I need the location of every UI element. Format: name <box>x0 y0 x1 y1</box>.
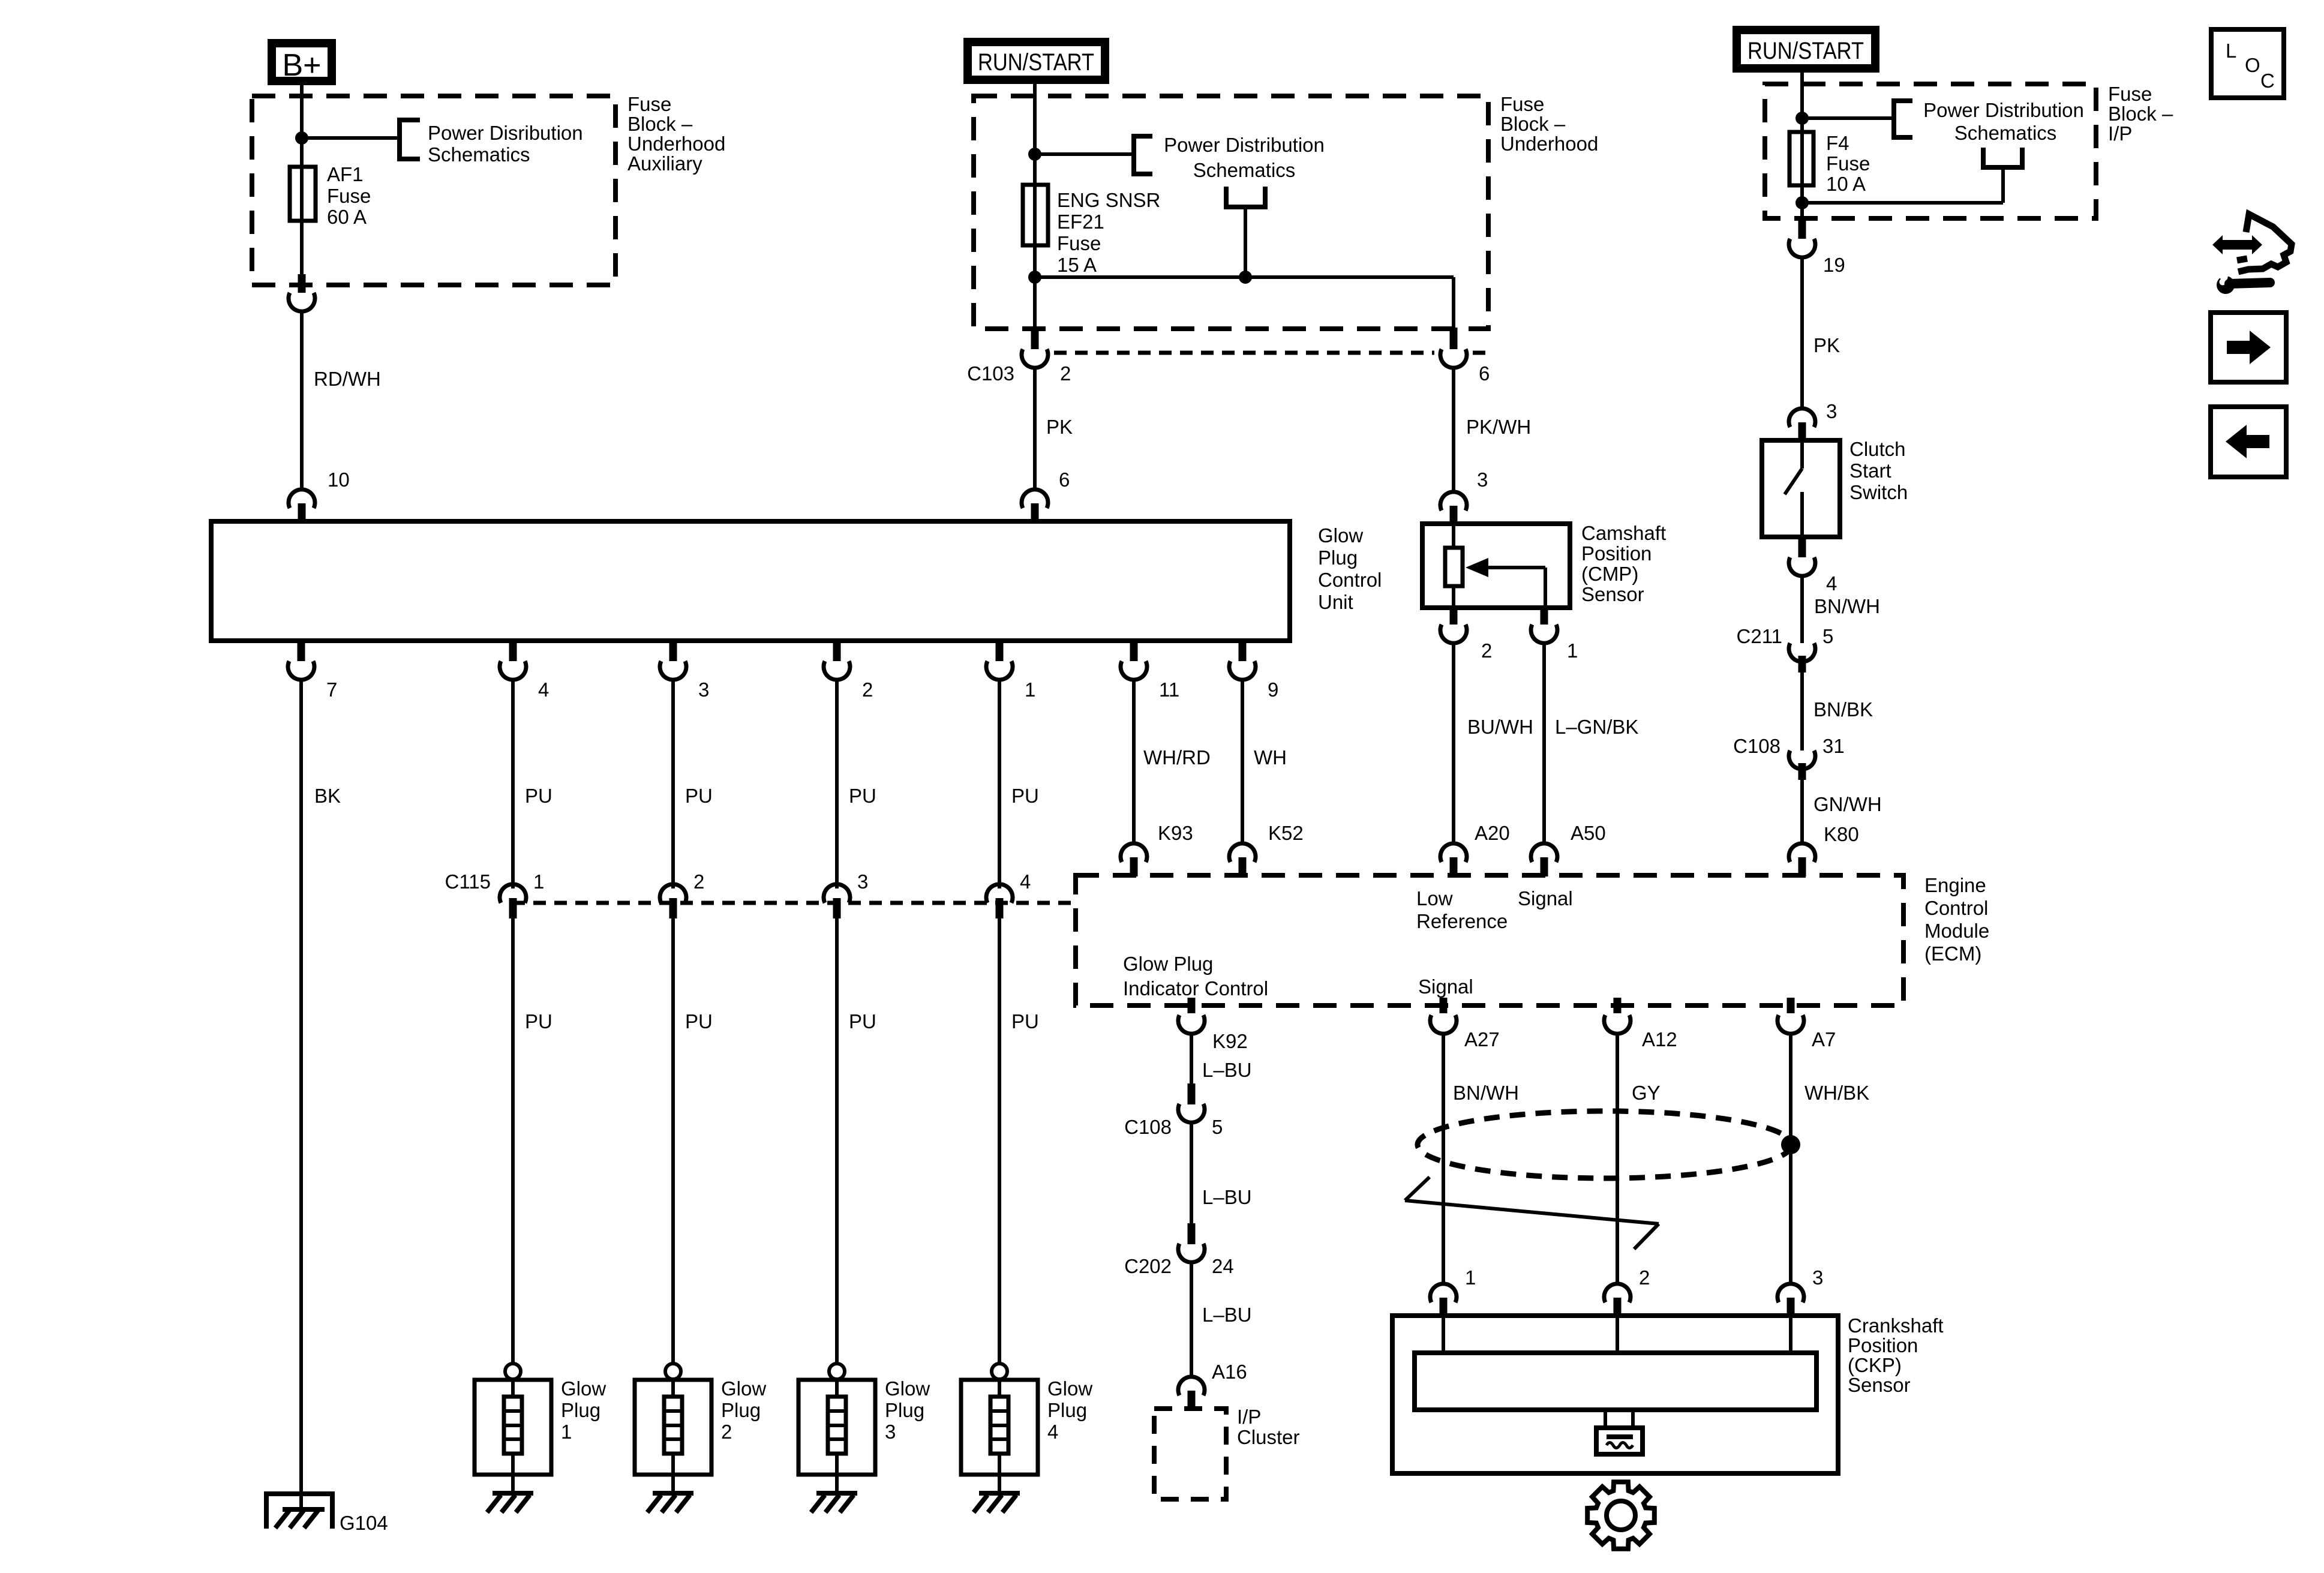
ground for glow plug 1 <box>487 1493 533 1512</box>
connector C108 on K92 chain <box>1178 1083 1205 1122</box>
svg-text:Fuse: Fuse <box>2108 83 2152 105</box>
wire RUN/START through fuse EF21 <box>1033 80 1037 329</box>
svg-text:Plug: Plug <box>885 1399 924 1421</box>
svg-text:2: 2 <box>862 679 873 701</box>
label PU upper 2 <box>685 785 713 807</box>
svg-text:Control: Control <box>1318 569 1382 591</box>
svg-text:PU: PU <box>1011 785 1039 807</box>
svg-text:2: 2 <box>721 1421 732 1443</box>
wire inside CKP 1 <box>1442 1316 1445 1353</box>
svg-text:3: 3 <box>857 870 868 893</box>
svg-text:RUN/START: RUN/START <box>978 49 1094 76</box>
svg-text:L–BU: L–BU <box>1202 1186 1252 1208</box>
connector C103 pin 6 <box>1440 328 1467 368</box>
svg-text:WH/BK: WH/BK <box>1804 1082 1869 1104</box>
LOC reference box <box>2211 29 2284 98</box>
connector A27 out of ECM <box>1430 998 1500 1050</box>
label PU lower 1 <box>525 1010 553 1032</box>
wire below glow plug 3 <box>835 1475 839 1494</box>
wire BN/WH right <box>1800 575 1804 643</box>
CMP sensor element <box>1445 548 1463 586</box>
wire PU upper 1 <box>511 679 515 888</box>
label A16 <box>1212 1361 1247 1383</box>
svg-text:L–BU: L–BU <box>1202 1059 1252 1081</box>
fuse ENG SNSR EF21 15A <box>1023 185 1048 245</box>
bracket symbol under text 2 <box>1226 187 1265 207</box>
label PU upper 3 <box>849 785 876 807</box>
svg-text:Signal: Signal <box>1518 887 1573 909</box>
svg-text:Signal: Signal <box>1418 975 1473 998</box>
connector K80 into ECM <box>1789 843 1815 876</box>
svg-text:Cluster: Cluster <box>1237 1426 1300 1448</box>
twisted pair symbol <box>1405 1177 1659 1249</box>
svg-text:4: 4 <box>1020 870 1031 893</box>
svg-text:6: 6 <box>1059 469 1070 491</box>
svg-text:2: 2 <box>1481 640 1492 662</box>
navigation icon wrench <box>2214 270 2270 294</box>
svg-text:Fuse: Fuse <box>1826 152 1870 175</box>
svg-text:Fuse: Fuse <box>627 93 671 115</box>
svg-text:PU: PU <box>849 785 876 807</box>
wire PU lower 2 <box>671 918 675 1364</box>
label PU lower 2 <box>685 1010 713 1032</box>
connector line C103 dashed <box>1054 351 1488 355</box>
label Camshaft Position CMP Sensor <box>1581 522 1666 605</box>
wire L-GN/BK <box>1542 643 1546 844</box>
svg-text:PU: PU <box>685 1010 713 1032</box>
svg-text:2: 2 <box>1639 1266 1650 1289</box>
connector pin 6 into glow plug control unit <box>1022 490 1048 523</box>
label C115 <box>445 870 491 893</box>
label C202 <box>1124 1255 1172 1277</box>
svg-text:Low: Low <box>1416 887 1453 909</box>
label pin 31 of C108 <box>1822 735 1845 757</box>
bracket symbol power distribution 2 <box>1134 136 1152 174</box>
svg-text:AF1: AF1 <box>327 163 364 185</box>
connector leaving fuse block 1 <box>289 274 315 311</box>
CKP pickup element <box>1596 1410 1643 1454</box>
svg-text:ENG SNSR: ENG SNSR <box>1057 189 1160 211</box>
svg-text:31: 31 <box>1822 735 1845 757</box>
svg-text:A7: A7 <box>1812 1028 1836 1050</box>
svg-text:EF21: EF21 <box>1057 211 1104 233</box>
label Fuse Block - Underhood Auxiliary <box>627 93 725 175</box>
connector pin 11 of glow plug control unit <box>1121 640 1179 701</box>
svg-text:PK/WH: PK/WH <box>1466 416 1531 438</box>
svg-text:PU: PU <box>849 1010 876 1032</box>
svg-text:L: L <box>2226 40 2236 62</box>
label Fuse Block - Underhood <box>1500 93 1598 155</box>
svg-text:3: 3 <box>698 679 709 701</box>
connector line C115 dashed <box>512 901 1076 905</box>
wire from B+ through fuse AF1 <box>300 85 304 285</box>
label PK right <box>1813 334 1840 356</box>
svg-text:GN/WH: GN/WH <box>1813 793 1882 815</box>
svg-text:C108: C108 <box>1733 735 1780 757</box>
svg-text:PU: PU <box>1011 1010 1039 1032</box>
label Glow Plug 1 <box>561 1377 606 1443</box>
wire PK right <box>1800 257 1804 409</box>
ground for glow plug 3 <box>811 1493 857 1512</box>
svg-text:5: 5 <box>1212 1116 1223 1138</box>
connector pin 7 of glow plug control unit <box>288 640 337 701</box>
label C103 <box>967 362 1014 385</box>
wire L-BU 2 <box>1190 1122 1193 1224</box>
svg-text:Power Disribution: Power Disribution <box>428 122 583 144</box>
label K93 <box>1158 822 1193 844</box>
svg-text:Glow: Glow <box>561 1377 606 1400</box>
wire BK to ground <box>299 679 303 1509</box>
I/P cluster dashed box <box>1154 1409 1226 1499</box>
bracket symbol power distribution 1 <box>400 120 420 159</box>
svg-text:K52: K52 <box>1268 822 1304 844</box>
navigation box arrow right <box>2211 313 2286 382</box>
connector C115 pin 2 <box>660 870 704 918</box>
wire PU upper 2 <box>671 679 675 888</box>
svg-text:Block –: Block – <box>1500 113 1566 135</box>
svg-text:1: 1 <box>1567 640 1578 662</box>
wire branch to power distribution 3 <box>1802 116 1894 120</box>
wire WH/BK to CKP <box>1789 1033 1792 1284</box>
wire PK <box>1033 367 1037 490</box>
wire WH <box>1241 679 1244 844</box>
svg-text:15 A: 15 A <box>1057 254 1097 276</box>
connector A50 into ECM <box>1531 843 1557 876</box>
wire RD/WH <box>300 311 304 489</box>
bus wire in fuse block 3 <box>1802 201 2003 205</box>
label BU/WH <box>1467 716 1533 738</box>
svg-text:F4: F4 <box>1826 132 1849 154</box>
label Engine Control Module ECM <box>1924 874 1989 965</box>
svg-text:I/P: I/P <box>2108 122 2132 145</box>
label BN/WH right <box>1814 595 1880 617</box>
svg-text:RD/WH: RD/WH <box>314 368 381 390</box>
label pin 2 of C103 <box>1060 362 1071 385</box>
wire GN/WH <box>1800 780 1804 844</box>
svg-text:PU: PU <box>685 785 713 807</box>
connector A16 into I/P cluster <box>1178 1377 1205 1410</box>
svg-text:A16: A16 <box>1212 1361 1247 1383</box>
navigation box arrow left <box>2211 407 2286 477</box>
clutch start switch box <box>1762 440 1840 537</box>
connector K92 out of ECM <box>1178 998 1248 1052</box>
connector A7 out of ECM <box>1777 998 1836 1050</box>
svg-text:10: 10 <box>328 469 350 491</box>
label WH/BK <box>1804 1082 1869 1104</box>
node junction in fuse block 1 <box>295 131 308 145</box>
svg-text:L–GN/BK: L–GN/BK <box>1555 716 1638 738</box>
svg-text:BN/WH: BN/WH <box>1453 1082 1519 1104</box>
node junction bus 3 <box>1795 196 1809 209</box>
connector A20 into ECM <box>1440 843 1467 876</box>
label Clutch Start Switch <box>1849 438 1908 503</box>
wire PU lower 4 <box>998 918 1001 1364</box>
node junction bus left <box>1028 271 1041 284</box>
connector pin 3 into CKP sensor <box>1777 1266 1823 1317</box>
ground G104 <box>266 1494 332 1529</box>
svg-text:C108: C108 <box>1124 1116 1172 1138</box>
wire inside CKP 3 <box>1789 1316 1792 1353</box>
connector pin 1 of glow plug control unit <box>986 640 1035 701</box>
connector pin 3 of glow plug control unit <box>660 640 709 701</box>
svg-text:1: 1 <box>561 1421 572 1443</box>
wire from bracket to bus 2 <box>1244 207 1247 277</box>
svg-text:RUN/START: RUN/START <box>1747 38 1864 64</box>
connector pin 2 into CKP sensor <box>1604 1266 1650 1317</box>
label WH/RD <box>1143 746 1211 769</box>
label pin 24 of C202 <box>1212 1255 1234 1277</box>
connector pin 19 leaving fuse block 3 <box>1789 217 1845 276</box>
svg-text:Switch: Switch <box>1849 481 1908 503</box>
label pin 5 of C211 <box>1822 625 1833 647</box>
glow plug 1 <box>475 1364 551 1475</box>
label L-BU 3 <box>1202 1304 1252 1326</box>
wire PK/WH <box>1452 367 1455 493</box>
svg-text:Fuse: Fuse <box>1057 232 1101 254</box>
connector pin 9 of glow plug control unit <box>1229 640 1278 701</box>
connector CMP pin 1 <box>1531 607 1578 662</box>
label PU upper 1 <box>525 785 553 807</box>
svg-text:Block –: Block – <box>2108 103 2173 125</box>
wire inside CKP 2 <box>1616 1316 1619 1353</box>
CKP inner element box <box>1415 1353 1816 1410</box>
svg-text:Power Distribution: Power Distribution <box>1923 99 2084 121</box>
connector K52 into ECM <box>1229 843 1256 876</box>
svg-text:Glow: Glow <box>1047 1377 1092 1400</box>
svg-text:Glow: Glow <box>885 1377 930 1400</box>
wire bus down right side <box>1452 277 1455 329</box>
label PK <box>1046 416 1073 438</box>
label Glow Plug 2 <box>721 1377 766 1443</box>
label C211 <box>1737 625 1782 647</box>
svg-text:60 A: 60 A <box>327 206 367 228</box>
svg-text:PK: PK <box>1046 416 1073 438</box>
label C108 left <box>1124 1116 1172 1138</box>
glow plug 3 <box>798 1364 875 1475</box>
label Low Reference <box>1416 887 1508 932</box>
wire PU lower 3 <box>835 918 839 1364</box>
svg-text:Engine: Engine <box>1924 874 1986 896</box>
connector C115 pin 3 <box>824 870 868 918</box>
label K80 <box>1824 823 1859 845</box>
glow plug control unit box <box>211 521 1290 641</box>
connector pin 3 into CMP sensor <box>1440 492 1467 525</box>
svg-text:(ECM): (ECM) <box>1924 942 1981 965</box>
svg-text:Glow: Glow <box>1318 524 1363 547</box>
engine control module ECM dashed box <box>1076 875 1903 1005</box>
wire branch to power distribution 1 <box>302 136 400 140</box>
label L-BU 1 <box>1202 1059 1252 1081</box>
svg-text:Start: Start <box>1849 460 1891 482</box>
svg-text:Plug: Plug <box>1318 547 1358 569</box>
svg-text:C202: C202 <box>1124 1255 1172 1277</box>
svg-text:3: 3 <box>1477 469 1488 491</box>
label pin 10 <box>328 469 350 491</box>
svg-text:C115: C115 <box>445 870 491 893</box>
svg-text:Underhood: Underhood <box>1500 133 1598 155</box>
svg-text:Module: Module <box>1924 920 1989 942</box>
wire PU upper 3 <box>835 679 839 888</box>
power terminal RUN/START 2 <box>1737 30 1875 68</box>
node shield junction on WH/BK <box>1781 1135 1800 1154</box>
label GY <box>1632 1082 1661 1104</box>
wire WH/RD <box>1132 679 1136 844</box>
fuse F4 10A <box>1789 132 1813 185</box>
wire BN/BK <box>1800 673 1804 751</box>
svg-text:BK: BK <box>314 785 341 807</box>
svg-text:A27: A27 <box>1464 1028 1500 1050</box>
navigation icon double arrow <box>2212 235 2262 254</box>
svg-text:C211: C211 <box>1737 625 1782 647</box>
bus wire in fuse block 2 <box>1035 275 1454 279</box>
svg-text:Schematics: Schematics <box>1954 122 2057 144</box>
label I/P Cluster <box>1237 1406 1300 1448</box>
svg-text:5: 5 <box>1822 625 1833 647</box>
label pin 5 of C108 left <box>1212 1116 1223 1138</box>
svg-text:1: 1 <box>1025 679 1035 701</box>
svg-text:Fuse: Fuse <box>327 185 371 207</box>
svg-text:BN/BK: BN/BK <box>1813 698 1873 721</box>
svg-text:10 A: 10 A <box>1826 173 1866 195</box>
svg-text:Glow: Glow <box>721 1377 766 1400</box>
fuse AF1 60A <box>290 167 316 221</box>
connector pin 10 into glow plug control unit <box>289 490 315 523</box>
navigation icon route outline <box>2237 214 2292 272</box>
svg-text:19: 19 <box>1823 254 1845 276</box>
label pin 6 into GPCU <box>1059 469 1070 491</box>
svg-text:WH/RD: WH/RD <box>1143 746 1211 769</box>
svg-text:4: 4 <box>1047 1421 1058 1443</box>
label Signal top <box>1518 887 1573 909</box>
svg-text:(CMP): (CMP) <box>1581 563 1638 585</box>
svg-text:1: 1 <box>533 870 544 893</box>
label PU lower 4 <box>1011 1010 1039 1032</box>
ground for glow plug 2 <box>647 1493 693 1512</box>
fuse block - underhood dashed box <box>974 96 1488 329</box>
fuse block - underhood auxiliary dashed box <box>252 96 615 285</box>
glow plug 4 <box>961 1364 1038 1475</box>
label Glow Plug Control Unit <box>1318 524 1382 613</box>
svg-text:GY: GY <box>1632 1082 1661 1104</box>
wire L-BU 1 <box>1190 1033 1193 1085</box>
wire PU upper 4 <box>998 679 1001 888</box>
svg-text:Crankshaft: Crankshaft <box>1848 1314 1944 1337</box>
wire below glow plug 2 <box>671 1475 675 1494</box>
svg-text:Plug: Plug <box>561 1399 600 1421</box>
svg-text:Fuse: Fuse <box>1500 93 1544 115</box>
label A20 <box>1475 822 1510 844</box>
label PK/WH <box>1466 416 1531 438</box>
label A50 <box>1571 822 1606 844</box>
label ENG SNSR EF21 Fuse 15 A <box>1057 189 1160 276</box>
svg-text:A20: A20 <box>1475 822 1510 844</box>
connector pin 2 of glow plug control unit <box>824 640 873 701</box>
wire below glow plug 4 <box>998 1475 1001 1494</box>
wire BU/WH <box>1452 643 1455 844</box>
wire inside CMP lower <box>1452 586 1455 608</box>
wire branch to power distribution 2 <box>1035 152 1134 156</box>
svg-text:I/P: I/P <box>1237 1406 1261 1428</box>
svg-text:C103: C103 <box>967 362 1014 385</box>
svg-text:7: 7 <box>326 679 337 701</box>
wire RUN/START through fuse F4 <box>1800 68 1804 218</box>
label Signal bottom <box>1418 975 1473 998</box>
label Fuse Block - I/P <box>2108 83 2173 145</box>
svg-text:K93: K93 <box>1158 822 1193 844</box>
label Glow Plug 4 <box>1047 1377 1092 1443</box>
svg-text:K80: K80 <box>1824 823 1859 845</box>
switch blade clutch start switch <box>1785 440 1802 537</box>
svg-text:2: 2 <box>693 870 704 893</box>
connector C202 <box>1178 1223 1205 1262</box>
label pin 3 into CMP <box>1477 469 1488 491</box>
svg-text:11: 11 <box>1159 679 1179 701</box>
wire L-BU 3 <box>1190 1262 1193 1376</box>
svg-text:Schematics: Schematics <box>1193 159 1296 181</box>
connector C211 <box>1789 643 1815 673</box>
wire from bracket down 3 <box>2001 167 2005 203</box>
connector C115 pin 4 <box>986 870 1031 918</box>
svg-text:6: 6 <box>1479 362 1490 385</box>
svg-text:WH: WH <box>1254 746 1287 769</box>
svg-text:B+: B+ <box>282 48 321 83</box>
node junction fuse block 3 upper <box>1795 112 1809 125</box>
svg-text:L–BU: L–BU <box>1202 1304 1252 1326</box>
label GN/WH <box>1813 793 1882 815</box>
svg-text:3: 3 <box>1812 1266 1823 1289</box>
ground for glow plug 4 <box>974 1493 1020 1512</box>
wire GY to CKP <box>1616 1033 1619 1284</box>
connector pin 3 into clutch start switch <box>1789 409 1815 442</box>
wire below glow plug 1 <box>511 1475 515 1494</box>
label AF1 Fuse 60 A <box>327 163 371 228</box>
bracket symbol power distribution 3 <box>1894 101 1912 137</box>
label L-BU 2 <box>1202 1186 1252 1208</box>
label pin 3 into clutch switch <box>1826 400 1837 422</box>
svg-text:G104: G104 <box>340 1512 388 1534</box>
label BN/BK <box>1813 698 1873 721</box>
label PU upper 4 <box>1011 785 1039 807</box>
shield dashed ellipse <box>1418 1111 1792 1178</box>
connector K93 into ECM <box>1121 843 1147 876</box>
svg-text:Control: Control <box>1924 897 1988 919</box>
svg-text:Schematics: Schematics <box>428 143 530 166</box>
svg-text:C: C <box>2260 70 2275 92</box>
svg-text:O: O <box>2245 54 2260 76</box>
svg-text:BU/WH: BU/WH <box>1467 716 1533 738</box>
svg-text:4: 4 <box>538 679 549 701</box>
label RD/WH <box>314 368 381 390</box>
connector pin 1 into CKP sensor <box>1430 1266 1476 1317</box>
svg-text:1: 1 <box>1465 1266 1476 1289</box>
label Glow Plug Indicator Control <box>1123 953 1268 999</box>
camshaft position CMP sensor box <box>1422 524 1570 608</box>
label Power Distribution Schematics 3 <box>1923 99 2084 144</box>
svg-text:3: 3 <box>1826 400 1837 422</box>
power terminal RUN/START 1 <box>968 42 1105 80</box>
svg-text:PU: PU <box>525 785 553 807</box>
svg-text:PK: PK <box>1813 334 1840 356</box>
svg-text:Clutch: Clutch <box>1849 438 1906 460</box>
svg-text:K92: K92 <box>1212 1030 1248 1052</box>
node junction fuse block 2 upper <box>1028 148 1041 161</box>
label WH <box>1254 746 1287 769</box>
crankshaft position CKP sensor box <box>1392 1316 1838 1473</box>
svg-text:24: 24 <box>1212 1255 1234 1277</box>
label Power Distribution Schematics 2 <box>1164 134 1325 181</box>
connector pin 4 leaving clutch switch <box>1789 536 1837 595</box>
svg-text:Auxiliary: Auxiliary <box>627 152 702 175</box>
